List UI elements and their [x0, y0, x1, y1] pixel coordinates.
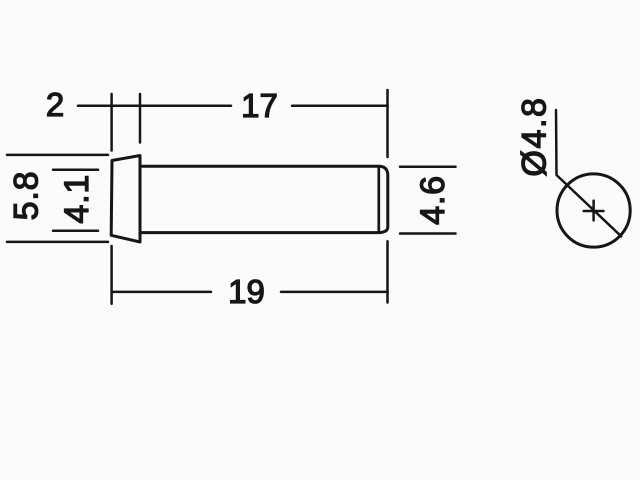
svg-text:17: 17 [241, 87, 278, 124]
dimension line bottom (19) right segment [281, 291, 388, 294]
extension line 5.8 bottom [7, 241, 108, 244]
center mark plus vertical [592, 201, 595, 221]
end view circle [557, 174, 630, 247]
pin tip chamfer line [377, 167, 380, 232]
dimension line bottom (19) left segment [112, 291, 211, 294]
pin body (side view shaft with rounded tip) [140, 166, 388, 232]
extension line 4.1 bottom [53, 230, 98, 233]
extension line 4.6 bottom [400, 232, 456, 235]
svg-text:2: 2 [46, 86, 64, 123]
svg-text:19: 19 [228, 273, 265, 310]
svg-text:Ø4.8: Ø4.8 [516, 96, 554, 176]
svg-text:5.8: 5.8 [8, 171, 46, 221]
extension line x=111.6 bottom [110, 246, 113, 304]
extension line 4.6 top [400, 166, 456, 169]
svg-text:4.1: 4.1 [58, 174, 96, 224]
dimension line top (2 and 17) left segment [78, 104, 231, 107]
extension line x=387.5 top [386, 90, 389, 157]
extension line x=387.5 bottom [386, 241, 389, 302]
leader line for diameter [556, 110, 621, 236]
extension line 5.8 top [7, 154, 108, 157]
dimension line top (17) right segment [292, 104, 388, 107]
svg-text:4.6: 4.6 [414, 175, 452, 225]
pin head (side view trapezoid) [111, 156, 140, 243]
extension line x=111.6 top [110, 94, 113, 151]
center mark plus horizontal [584, 210, 604, 213]
extension line 4.1 top [53, 169, 98, 172]
extension line x=140 top [139, 94, 142, 143]
